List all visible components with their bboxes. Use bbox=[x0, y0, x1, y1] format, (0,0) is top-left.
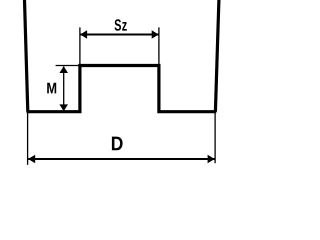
Sz right extension line bbox=[158, 27, 160, 69]
label Sz bbox=[115, 19, 127, 31]
D right arrowhead bbox=[208, 155, 215, 164]
right wall bbox=[215, 0, 219, 112]
Sz right arrowhead bbox=[152, 30, 159, 38]
D dimension line bbox=[28, 158, 214, 160]
stepped profile bottom bbox=[27, 66, 217, 112]
M extension line bbox=[56, 65, 79, 67]
left wall bbox=[25, 0, 28, 112]
D left extension line bbox=[27, 113, 29, 165]
D right extension line bbox=[214, 113, 216, 164]
label M bbox=[47, 83, 56, 94]
D left arrowhead bbox=[28, 155, 35, 164]
label D bbox=[112, 137, 123, 151]
Sz dimension line bbox=[80, 34, 158, 36]
Sz left arrowhead bbox=[80, 30, 87, 38]
M dimension line bbox=[63, 66, 65, 111]
M bottom arrowhead bbox=[59, 104, 68, 111]
M top arrowhead bbox=[59, 66, 68, 73]
Sz left extension line bbox=[79, 27, 81, 69]
